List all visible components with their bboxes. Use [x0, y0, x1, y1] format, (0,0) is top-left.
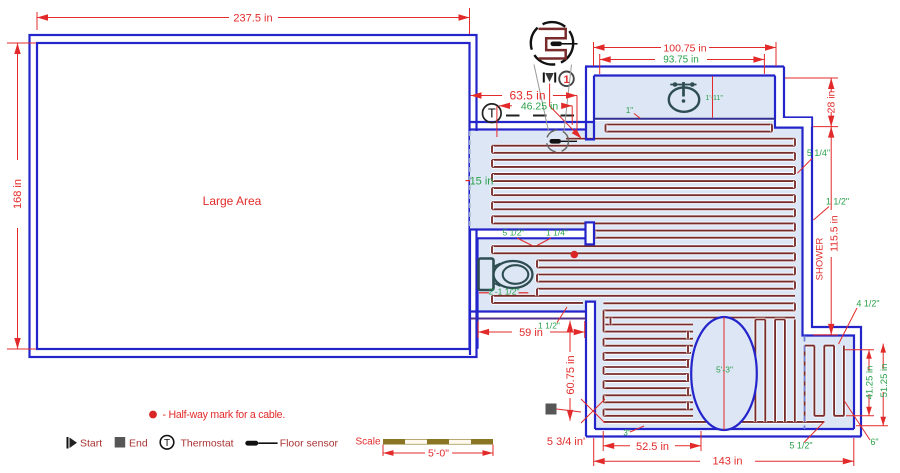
legend end [115, 437, 148, 449]
svg-text:1": 1" [626, 106, 633, 115]
svg-text:Large Area: Large Area [203, 194, 262, 208]
svg-text:Floor sensor: Floor sensor [280, 437, 339, 449]
svg-text:46.25 in: 46.25 in [521, 101, 559, 113]
svg-text:T: T [164, 438, 170, 449]
wall nook bottom [470, 122, 595, 130]
svg-text:143 in: 143 in [713, 456, 743, 468]
floor fill shower area [803, 336, 855, 430]
dimension 41.25 in [845, 350, 876, 416]
start mark [544, 73, 555, 83]
svg-text:5 1/4": 5 1/4" [807, 148, 830, 158]
wall large-area outer [30, 35, 477, 357]
svg-text:115.5 in: 115.5 in [829, 215, 841, 252]
svg-text:237.5 in: 237.5 in [233, 13, 272, 25]
open edge dashed shower [804, 336, 806, 430]
svg-text:5 3/4 in': 5 3/4 in' [547, 436, 585, 448]
wall sink room top [585, 67, 784, 76]
cable number 1 [559, 72, 574, 87]
legend thermostat [160, 436, 233, 450]
dimension 115.5 in [813, 127, 841, 335]
label 5-3 tub [716, 365, 733, 375]
wall right side outer and inner [775, 67, 861, 437]
dimension 52.5 in [603, 431, 701, 453]
dimension 168 in [7, 43, 36, 349]
label Large Area [203, 194, 262, 208]
end mark leaders [557, 399, 606, 423]
wall counter front edge [594, 118, 775, 120]
svg-text:51.25 in: 51.25 in [879, 364, 890, 398]
wall bottom-room left (tab) [586, 302, 595, 437]
floor sensor [547, 130, 578, 152]
svg-text:59 in: 59 in [519, 327, 543, 339]
svg-text:2'-1 1/2": 2'-1 1/2" [488, 287, 519, 297]
floor fill toilet room [478, 240, 586, 312]
svg-text:1 1/2": 1 1/2" [826, 197, 849, 207]
svg-text:6": 6" [870, 437, 878, 447]
svg-text:5'-0": 5'-0" [428, 448, 449, 460]
label 6 with leader [844, 401, 879, 447]
svg-text:Start: Start [80, 437, 102, 449]
wall large-area inner [37, 43, 470, 349]
svg-text:5 1/2": 5 1/2" [503, 227, 525, 237]
dimension 63.5 in [471, 89, 578, 130]
svg-text:4 1/2": 4 1/2" [856, 299, 879, 309]
svg-text:5'-3": 5'-3" [716, 365, 733, 375]
svg-text:93.75 in: 93.75 in [663, 55, 699, 66]
svg-text:Scale: Scale [355, 437, 380, 448]
leader start mark to cable start [550, 84, 584, 141]
bathtub [691, 317, 757, 430]
legend floor sensor [245, 437, 338, 449]
wall sink room left divider [586, 67, 594, 140]
wall toilet room left [470, 230, 478, 356]
svg-text:168 in: 168 in [12, 179, 24, 209]
label 15 in [466, 176, 494, 188]
label 1 1/2 right with leader [814, 197, 850, 221]
label 5 1/2 bottom with leader [789, 422, 824, 451]
wall step corner patch [776, 118, 811, 127]
svg-text:SHOWER: SHOWER [815, 237, 826, 280]
svg-text:60.75 in: 60.75 in [565, 355, 577, 394]
svg-text:End: End [129, 437, 148, 449]
svg-text:- Half-way mark for a cable.: - Half-way mark for a cable. [163, 409, 286, 421]
dimension 59 in [478, 321, 585, 339]
dimension 237.5 in [37, 8, 470, 34]
dimension 28 in [785, 78, 838, 127]
wall bottom-room left interior [586, 302, 595, 429]
wall toilet room top [470, 230, 586, 239]
label 5 1/2 corridor with leader [503, 227, 533, 246]
door dashed line [506, 115, 574, 117]
svg-text:28 in: 28 in [826, 90, 838, 113]
svg-text:52.5 in: 52.5 in [636, 441, 669, 453]
legend start [68, 437, 103, 449]
dimension 60.75 in [565, 321, 577, 421]
legend half-way text [163, 409, 286, 421]
cable shower serpentine [805, 346, 844, 422]
label 1-11 counter [706, 76, 724, 118]
floor fill bottom room [595, 302, 803, 429]
cable u-turn connectors bottom room [604, 303, 796, 416]
svg-text:1 1/4": 1 1/4" [546, 227, 568, 237]
dimension 100.75 in [594, 42, 777, 66]
wall bottom [586, 429, 861, 437]
label SHOWER [815, 237, 826, 280]
wall toilet room bottom [470, 312, 586, 319]
svg-text:15 in: 15 in [470, 176, 494, 188]
svg-text:3": 3" [623, 429, 630, 438]
detail circle magnified cable start [531, 22, 578, 64]
scale bar [355, 437, 493, 460]
open edge dashed 15in strip [469, 131, 471, 230]
toilet [479, 259, 533, 291]
svg-text:100.75 in: 100.75 in [663, 43, 706, 55]
floor fill 15in strip [470, 131, 586, 230]
end mark square [546, 404, 557, 415]
dimension 143 in [594, 438, 854, 468]
wall tab between openings [586, 222, 595, 244]
floor fill sink+middle room [586, 121, 803, 311]
label 1 1/4 with leader [537, 227, 568, 245]
thermostat T [483, 104, 502, 123]
dimension 93.75 in [600, 54, 765, 74]
dimension 51.25 in [856, 344, 890, 426]
label 3 inch with leader [623, 426, 644, 438]
svg-text:5 1/2": 5 1/2" [789, 440, 812, 450]
half-way mark dot [571, 251, 579, 259]
label 4 1/2 with leader [839, 299, 880, 344]
label 1 1/2 left with leader [538, 307, 567, 330]
label 1 inch with leader [626, 106, 640, 118]
svg-text:41.25 in: 41.25 in [865, 366, 876, 400]
svg-text:T: T [488, 106, 496, 121]
cable u-turn connectors upper [492, 125, 795, 303]
floor fill counter area [594, 76, 775, 119]
label 2-1 1/2 with ticks [479, 287, 528, 297]
sink [669, 82, 699, 112]
svg-text:1'-11": 1'-11" [706, 95, 724, 102]
label 5 1/4 with leader [797, 148, 830, 173]
svg-text:Thermostat: Thermostat [181, 437, 234, 449]
dimension 46.25 in [497, 101, 572, 138]
legend half-way dot [149, 411, 157, 419]
cable horizontal runs [492, 125, 824, 422]
detail leader lines [534, 65, 572, 132]
label 5 3/4 in [547, 436, 585, 448]
cable vertical runs right of tub [755, 320, 794, 422]
bathtub center line [723, 317, 725, 430]
svg-text:1: 1 [563, 74, 569, 86]
